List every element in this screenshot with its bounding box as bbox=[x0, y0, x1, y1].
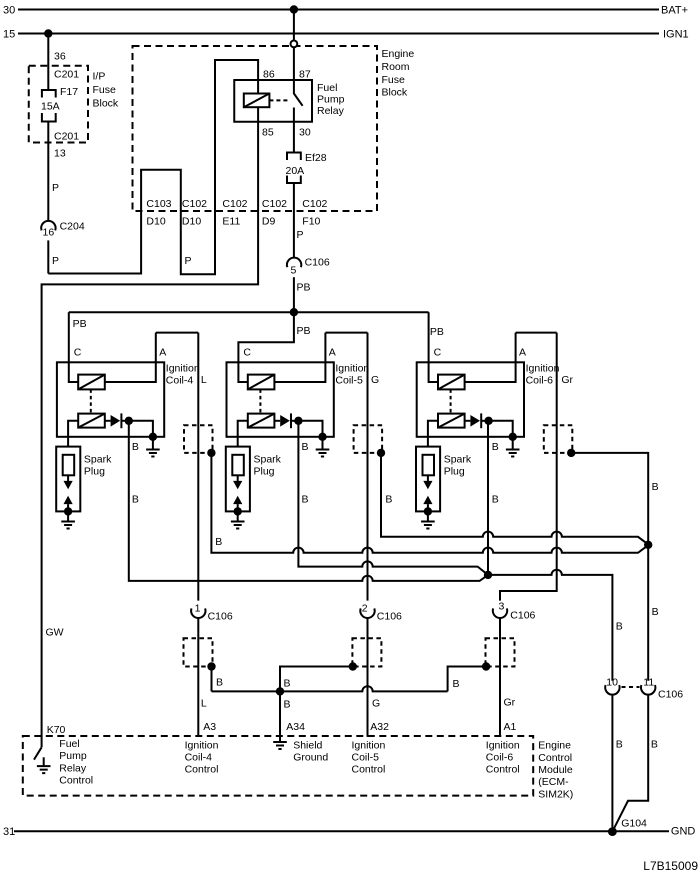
svg-text:K70: K70 bbox=[47, 724, 66, 736]
svg-text:Fuse: Fuse bbox=[93, 84, 117, 96]
wire B bus to pin 10 bbox=[488, 570, 612, 681]
svg-text:C103: C103 bbox=[146, 198, 171, 210]
svg-text:A32: A32 bbox=[370, 721, 389, 733]
shield box coil-5 bbox=[354, 425, 383, 453]
junction on bus 30 bbox=[290, 5, 298, 13]
spark plug box bbox=[226, 447, 250, 512]
svg-text:L7B15009: L7B15009 bbox=[643, 859, 698, 873]
junction diode output bbox=[294, 417, 302, 425]
svg-text:D10: D10 bbox=[146, 215, 165, 227]
svg-text:Ignition: Ignition bbox=[352, 740, 386, 752]
svg-text:IGN1: IGN1 bbox=[663, 29, 689, 41]
internal ground bbox=[152, 437, 154, 449]
wire primary to terminal A bbox=[465, 333, 516, 382]
svg-text:B: B bbox=[132, 493, 139, 505]
connector circle into fuse block bbox=[291, 41, 298, 48]
wire to internal ground bbox=[489, 421, 513, 437]
svg-text:36: 36 bbox=[54, 51, 66, 63]
svg-text:L: L bbox=[201, 374, 207, 386]
primary winding bbox=[438, 375, 465, 390]
svg-text:SIM2K): SIM2K) bbox=[538, 788, 573, 800]
svg-text:B: B bbox=[132, 441, 139, 453]
svg-text:15: 15 bbox=[3, 29, 15, 41]
svg-text:Ignition: Ignition bbox=[335, 362, 369, 374]
svg-text:2: 2 bbox=[362, 602, 368, 614]
connector C106 pin 5 bbox=[287, 258, 301, 268]
svg-text:Coil-4: Coil-4 bbox=[166, 374, 194, 386]
svg-text:Spark: Spark bbox=[254, 453, 282, 465]
svg-text:Coil-5: Coil-5 bbox=[352, 752, 380, 764]
ignition coil-6 bbox=[416, 333, 560, 529]
svg-text:C106: C106 bbox=[658, 689, 683, 701]
relay coil bbox=[244, 94, 270, 108]
wire PB to coil-4 C bbox=[68, 312, 70, 362]
svg-text:A: A bbox=[159, 346, 166, 358]
wire C into primary bbox=[238, 362, 247, 382]
svg-text:I/P: I/P bbox=[93, 71, 106, 83]
secondary winding bbox=[78, 414, 105, 428]
svg-text:Plug: Plug bbox=[444, 465, 465, 477]
svg-text:Engine: Engine bbox=[382, 48, 415, 60]
svg-text:C106: C106 bbox=[208, 611, 233, 623]
svg-text:10: 10 bbox=[606, 677, 618, 689]
dashed core link bbox=[90, 389, 92, 413]
svg-text:B: B bbox=[492, 493, 499, 505]
spark gap electrodes bbox=[67, 475, 69, 481]
secondary winding bbox=[438, 414, 465, 428]
svg-text:1: 1 bbox=[195, 602, 201, 614]
fuel pump relay box bbox=[234, 80, 312, 122]
wire G control bbox=[367, 333, 369, 601]
svg-text:GND: GND bbox=[671, 825, 696, 837]
wire PB to coil-6 C bbox=[428, 312, 430, 362]
dashed link pins 10-11 bbox=[622, 686, 640, 688]
svg-text:BAT+: BAT+ bbox=[661, 5, 688, 17]
wire bus30 to circle bbox=[293, 10, 295, 41]
svg-text:Coil-6: Coil-6 bbox=[526, 374, 554, 386]
spark plug box bbox=[56, 447, 80, 512]
relay dashed actuator link bbox=[269, 99, 288, 101]
junction spark plug ground bbox=[64, 507, 72, 515]
svg-text:Fuse: Fuse bbox=[382, 74, 406, 86]
primary winding bbox=[78, 375, 105, 390]
svg-text:B: B bbox=[284, 677, 291, 689]
wire pin 3 to A1 bbox=[499, 618, 501, 737]
wire circle to switch bbox=[293, 47, 295, 94]
svg-text:B: B bbox=[385, 494, 392, 506]
relay switch blade bbox=[294, 94, 303, 106]
svg-text:86: 86 bbox=[263, 68, 275, 80]
svg-text:31: 31 bbox=[3, 826, 15, 838]
svg-text:P: P bbox=[52, 255, 59, 267]
wire coil-5 A to G bbox=[325, 332, 367, 334]
svg-text:A: A bbox=[329, 346, 336, 358]
svg-text:A34: A34 bbox=[286, 721, 305, 733]
wire C into primary bbox=[69, 362, 78, 382]
fuse Ef28 20A bbox=[287, 153, 301, 161]
wire pin 10 to G104 bbox=[611, 695, 613, 832]
spark plug resistor bbox=[232, 455, 244, 476]
ignition coil-5 bbox=[226, 333, 370, 529]
wire coil-4 B run bbox=[129, 421, 488, 581]
svg-text:Fuel: Fuel bbox=[317, 82, 337, 94]
K70 switch ground bbox=[43, 757, 45, 766]
shield box coil-6 bbox=[544, 425, 573, 453]
connector C106 pin 2 bbox=[360, 608, 374, 618]
junction B merge bbox=[484, 571, 492, 579]
svg-text:C: C bbox=[74, 346, 82, 358]
wire secondary to spark plug bbox=[428, 421, 438, 447]
connector C204 pin 16 bbox=[41, 221, 55, 231]
ignition coil-4 bbox=[56, 333, 200, 529]
svg-text:30: 30 bbox=[3, 5, 15, 17]
svg-text:Room: Room bbox=[382, 61, 410, 73]
wire F17 to C204 bbox=[47, 122, 49, 221]
wire shield-L drain bbox=[211, 667, 213, 692]
svg-text:11: 11 bbox=[643, 677, 654, 689]
svg-text:B: B bbox=[616, 738, 623, 750]
svg-text:Relay: Relay bbox=[59, 762, 87, 774]
svg-text:Plug: Plug bbox=[254, 465, 275, 477]
svg-text:C: C bbox=[243, 346, 251, 358]
svg-text:Engine: Engine bbox=[538, 740, 571, 752]
bus 15 IGN1 bbox=[18, 33, 659, 35]
junction spark plug ground bbox=[234, 507, 242, 515]
spark plug ground bbox=[237, 511, 239, 521]
svg-text:P: P bbox=[297, 229, 304, 241]
svg-text:GW: GW bbox=[46, 626, 64, 638]
svg-text:Ignition: Ignition bbox=[185, 740, 219, 752]
wire pin 11 to G104 bbox=[612, 695, 648, 832]
bus 31 GND bbox=[14, 830, 669, 832]
wire primary to terminal A bbox=[105, 333, 156, 382]
svg-text:B: B bbox=[651, 738, 658, 750]
shield box ECM Gr bbox=[486, 638, 515, 666]
wire secondary to spark plug bbox=[68, 421, 78, 447]
svg-text:B: B bbox=[216, 676, 223, 688]
wire pin 1 to A3 bbox=[197, 618, 199, 737]
svg-text:B: B bbox=[492, 441, 499, 453]
connector C106 pin 10 bbox=[605, 685, 619, 695]
A34 shield ground symbol bbox=[279, 737, 281, 742]
svg-text:G: G bbox=[371, 374, 379, 386]
svg-text:Coil-4: Coil-4 bbox=[185, 752, 213, 764]
svg-text:3: 3 bbox=[499, 601, 505, 613]
wire shield-5 drain bbox=[381, 453, 648, 545]
dashed core link bbox=[259, 389, 261, 413]
svg-text:13: 13 bbox=[54, 148, 66, 160]
spark plug ground bbox=[67, 511, 69, 521]
wire secondary to spark plug bbox=[238, 421, 248, 447]
svg-text:G: G bbox=[372, 698, 380, 710]
junction shield-L drain bbox=[207, 662, 215, 670]
junction shield-5 drain bbox=[377, 449, 385, 457]
junction shield-4 drain bbox=[207, 449, 215, 457]
connector C106 pin 1 bbox=[191, 608, 205, 618]
svg-text:Control: Control bbox=[59, 775, 93, 787]
wire coil-4 A to L bbox=[156, 332, 199, 334]
svg-text:C204: C204 bbox=[60, 220, 85, 232]
wire to internal ground bbox=[129, 421, 153, 437]
wire to internal ground bbox=[298, 421, 322, 437]
junction on bus 15 bbox=[44, 29, 52, 37]
svg-text:C201: C201 bbox=[54, 131, 79, 143]
svg-text:PB: PB bbox=[430, 326, 444, 338]
svg-text:30: 30 bbox=[299, 126, 311, 138]
svg-text:Shield: Shield bbox=[293, 740, 322, 752]
PB bus horizontal bbox=[69, 311, 429, 313]
spark plug ground bbox=[427, 511, 429, 521]
svg-text:Block: Block bbox=[93, 98, 119, 110]
spark gap electrodes bbox=[237, 475, 239, 481]
junction shield merge bbox=[644, 541, 652, 549]
wire pin 2 to A32 bbox=[367, 618, 369, 737]
junction on box bottom bbox=[149, 433, 157, 441]
svg-text:C106: C106 bbox=[377, 611, 402, 623]
shield box ECM L bbox=[184, 638, 213, 666]
svg-text:P: P bbox=[52, 182, 59, 194]
svg-text:A: A bbox=[519, 346, 526, 358]
svg-text:C106: C106 bbox=[510, 610, 535, 622]
shield ground bus bbox=[212, 686, 448, 691]
svg-text:A3: A3 bbox=[203, 721, 216, 733]
svg-text:Ground: Ground bbox=[293, 752, 328, 764]
wire relay pin 85 to K70 bbox=[42, 107, 259, 747]
svg-text:Block: Block bbox=[382, 87, 408, 99]
svg-text:Control: Control bbox=[486, 764, 520, 776]
diode bbox=[274, 420, 280, 422]
svg-text:87: 87 bbox=[299, 68, 311, 80]
svg-text:C106: C106 bbox=[305, 257, 330, 269]
svg-text:B: B bbox=[215, 536, 222, 548]
connector C106 pin 3 bbox=[493, 608, 507, 618]
svg-text:PB: PB bbox=[73, 318, 87, 330]
svg-text:Control: Control bbox=[185, 764, 219, 776]
svg-text:Gr: Gr bbox=[504, 697, 516, 709]
svg-text:Ignition: Ignition bbox=[486, 740, 520, 752]
svg-text:D10: D10 bbox=[182, 215, 201, 227]
junction diode output bbox=[125, 417, 133, 425]
junction on box bottom bbox=[509, 433, 517, 441]
junction shield bus A34 bbox=[276, 687, 284, 695]
internal ground bbox=[322, 437, 324, 449]
svg-text:Coil-5: Coil-5 bbox=[335, 374, 363, 386]
wire shield-4 drain bbox=[211, 453, 648, 553]
svg-text:B: B bbox=[302, 493, 309, 505]
wire coil-6 A to Gr bbox=[516, 332, 557, 334]
svg-text:Control: Control bbox=[538, 752, 572, 764]
K70 switch blade bbox=[34, 747, 42, 759]
wire PB to coil-5 C bbox=[238, 312, 294, 362]
wire C204 to corner bbox=[47, 240, 49, 273]
ignition coil-6 box bbox=[417, 362, 524, 437]
svg-text:15A: 15A bbox=[41, 101, 60, 113]
wire Ef28 to C106 pin 5 bbox=[293, 183, 295, 258]
engine room fuse block box bbox=[133, 46, 378, 211]
svg-text:B: B bbox=[284, 699, 291, 711]
wire IGN1 to fuse F17 bbox=[47, 34, 49, 91]
svg-text:C102: C102 bbox=[262, 198, 287, 210]
svg-text:C102: C102 bbox=[182, 198, 207, 210]
svg-text:Ef28: Ef28 bbox=[305, 152, 327, 164]
junction shield-G drain bbox=[349, 662, 357, 670]
svg-text:C102: C102 bbox=[222, 198, 247, 210]
spark plug box bbox=[416, 447, 440, 512]
svg-text:F17: F17 bbox=[60, 86, 78, 98]
svg-text:B: B bbox=[652, 481, 659, 493]
junction G104 bbox=[608, 827, 617, 836]
wire shield-G drain to A34 bbox=[280, 667, 353, 737]
svg-text:Coil-6: Coil-6 bbox=[486, 752, 514, 764]
ignition coil-5 box bbox=[227, 362, 334, 437]
wire coil-6 B run bbox=[487, 421, 489, 575]
shield box ECM G bbox=[352, 638, 381, 666]
svg-text:PB: PB bbox=[297, 282, 311, 294]
diode bbox=[465, 420, 471, 422]
svg-text:C102: C102 bbox=[302, 198, 327, 210]
svg-text:A1: A1 bbox=[504, 721, 517, 733]
svg-text:20A: 20A bbox=[286, 165, 305, 177]
svg-text:(ECM-: (ECM- bbox=[538, 776, 569, 788]
connector C106 pin 11 bbox=[641, 685, 655, 695]
svg-text:Spark: Spark bbox=[84, 453, 112, 465]
wire C106-5 to PB junction bbox=[293, 277, 295, 312]
bus 30 BAT+ bbox=[18, 9, 659, 11]
svg-text:C: C bbox=[434, 346, 442, 358]
wire Gr control bbox=[500, 333, 557, 601]
spark plug resistor bbox=[63, 455, 74, 476]
svg-text:E11: E11 bbox=[222, 215, 240, 227]
spark gap electrodes bbox=[427, 475, 429, 481]
junction shield-6 drain bbox=[567, 449, 575, 457]
svg-text:Control: Control bbox=[352, 764, 386, 776]
wire coil-5 B run bbox=[298, 421, 488, 575]
svg-text:Spark: Spark bbox=[444, 453, 472, 465]
svg-text:F10: F10 bbox=[302, 215, 320, 227]
svg-text:PB: PB bbox=[297, 325, 311, 337]
wire L control bbox=[197, 333, 199, 601]
svg-text:L: L bbox=[201, 698, 207, 710]
wire C into primary bbox=[429, 362, 438, 382]
wire shield-Gr drain bbox=[448, 667, 487, 692]
junction PB bbox=[290, 308, 298, 316]
svg-text:Fuel: Fuel bbox=[59, 738, 79, 750]
wire P staircase to relay pin 86 bbox=[48, 60, 258, 274]
junction shield-Gr drain bbox=[482, 662, 490, 670]
junction on box bottom bbox=[318, 433, 326, 441]
svg-text:Pump: Pump bbox=[317, 94, 345, 106]
svg-text:B: B bbox=[652, 606, 659, 618]
primary winding bbox=[248, 375, 275, 390]
wire primary to terminal A bbox=[274, 333, 325, 382]
svg-text:5: 5 bbox=[291, 265, 297, 277]
wire switch to pin 30 bbox=[293, 108, 295, 153]
wire shield-6 drain to pin 11 bbox=[571, 453, 648, 681]
junction spark plug ground bbox=[424, 507, 432, 515]
svg-text:G104: G104 bbox=[621, 818, 647, 830]
svg-text:Ignition: Ignition bbox=[166, 362, 200, 374]
svg-text:Plug: Plug bbox=[84, 465, 105, 477]
secondary winding bbox=[248, 414, 275, 428]
svg-text:Module: Module bbox=[538, 764, 573, 776]
ignition coil-4 box bbox=[57, 362, 164, 437]
diode bbox=[105, 420, 111, 422]
svg-text:85: 85 bbox=[262, 126, 274, 138]
internal ground bbox=[512, 437, 514, 449]
svg-text:D9: D9 bbox=[262, 215, 276, 227]
svg-text:C201: C201 bbox=[54, 69, 79, 81]
svg-text:P: P bbox=[185, 255, 192, 267]
svg-text:Ignition: Ignition bbox=[526, 362, 560, 374]
fuse F17 15A bbox=[42, 90, 56, 98]
svg-text:B: B bbox=[616, 621, 623, 633]
svg-text:B: B bbox=[302, 441, 309, 453]
junction diode output bbox=[484, 417, 492, 425]
svg-text:Relay: Relay bbox=[317, 105, 345, 117]
I/P fuse block box bbox=[29, 66, 88, 143]
dashed core link bbox=[450, 389, 452, 413]
svg-text:16: 16 bbox=[43, 227, 55, 239]
svg-text:Pump: Pump bbox=[59, 750, 87, 762]
svg-text:B: B bbox=[453, 678, 460, 690]
shield box coil-4 bbox=[184, 425, 213, 453]
engine control module box bbox=[23, 736, 533, 796]
spark plug resistor bbox=[423, 455, 435, 476]
svg-text:Gr: Gr bbox=[561, 374, 573, 386]
